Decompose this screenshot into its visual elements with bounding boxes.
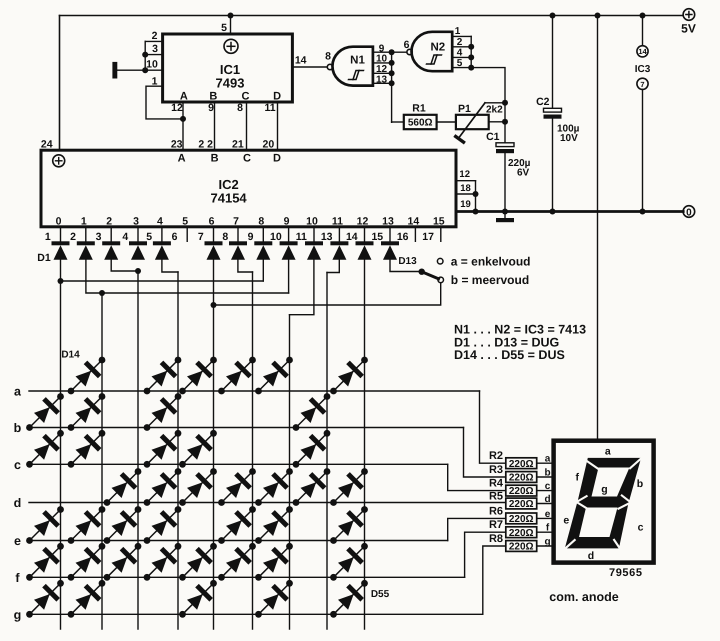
switch lever	[422, 272, 439, 279]
svg-text:b: b	[637, 478, 643, 490]
svg-text:2: 2	[70, 231, 76, 243]
diode D43 (row f, column 1)	[26, 543, 64, 581]
IC2 output 0 label	[56, 216, 62, 228]
IC2 pin number 16 label	[397, 231, 409, 243]
wire D9 anode down	[288, 260, 290, 293]
IC2 output 0 stub (pin 1)	[60, 227, 62, 242]
display digit top ring (segments a,f,b,g)	[577, 458, 641, 504]
node N1 pin 10	[389, 60, 395, 66]
svg-text:B: B	[209, 90, 217, 102]
diode D4 (output 3)	[129, 241, 147, 259]
IC2 pin 12 stub	[456, 169, 476, 181]
terminal 0V	[683, 206, 695, 219]
IC2 plus symbol	[53, 155, 65, 167]
diode D6 (output 6)	[205, 241, 223, 259]
wire node to C1	[504, 103, 506, 143]
svg-text:d: d	[544, 494, 550, 505]
node switch pole	[419, 269, 425, 275]
svg-text:10: 10	[306, 216, 318, 228]
diode D52 (row g, column 2)	[68, 580, 106, 618]
wire row c riser to R4	[448, 464, 506, 490]
wire segment row b	[29, 427, 464, 429]
IC2 output 3 label	[133, 216, 139, 228]
wire R4 to display segment c	[537, 490, 554, 492]
diode D35 (row d, column 9)	[330, 468, 368, 506]
N1 output bubble pin 8	[327, 64, 332, 69]
node D6 column junction	[211, 302, 217, 308]
svg-text:2: 2	[106, 216, 112, 228]
svg-text:4: 4	[122, 231, 128, 243]
svg-text:7: 7	[233, 216, 239, 228]
IC2 pin number 1 label	[45, 231, 51, 243]
resistor R6 220R	[506, 513, 537, 525]
svg-text:g: g	[544, 537, 550, 548]
N2 input pin 2 stub	[452, 46, 471, 48]
wire segment row g	[29, 613, 483, 615]
N1 pin 12 label	[376, 64, 388, 75]
diode D32 (row d, column 6)	[218, 468, 256, 506]
diode D23 (row b, column 8)	[293, 393, 331, 431]
wire matrix column 3	[137, 271, 139, 629]
IC2 pin number 6 label	[172, 231, 178, 243]
IC2 output 7 stub (pin 8)	[237, 227, 239, 242]
svg-text:15: 15	[371, 231, 383, 243]
N2 input pin 5 stub	[452, 67, 471, 69]
IC2 top pin number labels	[171, 139, 275, 151]
wire IC3 supply upper	[642, 16, 644, 46]
diode D11 (output 11)	[330, 241, 348, 259]
wire R5 to display segment d	[537, 503, 554, 505]
IC2 pin 19 label	[460, 199, 471, 210]
switch contact a	[437, 258, 443, 264]
diode D8 (output 8)	[254, 241, 272, 259]
svg-text:D1: D1	[37, 252, 51, 264]
svg-text:17: 17	[422, 231, 434, 243]
row label c	[14, 458, 21, 472]
IC2 pin number 11 label	[296, 231, 307, 243]
wire R7 to display segment f	[537, 531, 554, 533]
svg-text:3: 3	[96, 231, 102, 243]
wire matrix column 8	[326, 273, 328, 630]
svg-text:d: d	[588, 550, 594, 562]
svg-text:18: 18	[460, 183, 471, 194]
wire +5V top rail	[60, 15, 684, 17]
R7 label	[489, 519, 503, 531]
svg-text:D14 . . . D55 = DUS: D14 . . . D55 = DUS	[454, 348, 565, 362]
svg-text:1: 1	[81, 216, 87, 228]
diode D28 (row c, column 8)	[293, 430, 331, 468]
C1 label	[486, 131, 500, 143]
diode D33 (row d, column 7)	[255, 468, 293, 506]
IC2 output 12 label	[357, 216, 369, 228]
op-amp N1 (Schmitt NAND, mirrored)	[332, 47, 372, 86]
svg-text:1: 1	[455, 26, 461, 37]
segment letter e	[545, 509, 551, 520]
svg-text:2: 2	[152, 30, 158, 42]
IC1 pin 3 stub	[145, 54, 162, 56]
svg-text:15: 15	[433, 216, 445, 228]
IC3 label	[635, 64, 651, 75]
wire IC3 ground to 0V rail	[642, 89, 644, 211]
row label a	[14, 385, 22, 399]
C2 value	[557, 124, 580, 145]
IC2 output 13 label	[382, 216, 394, 228]
node N2 pin 5	[468, 65, 474, 71]
IC2 pin number 13 label	[321, 231, 333, 243]
svg-text:a: a	[605, 446, 611, 458]
svg-text:11: 11	[296, 231, 307, 243]
IC2 output 9 stub (pin 10)	[288, 227, 290, 242]
svg-text:12: 12	[171, 102, 183, 114]
row label d	[14, 496, 22, 510]
note D1-D13	[454, 336, 559, 350]
wire N1 pin9 to N2 output	[392, 51, 407, 53]
svg-text:D55: D55	[371, 589, 390, 600]
svg-text:R5: R5	[489, 491, 503, 503]
diode D40 (row e, column 6)	[218, 506, 256, 544]
svg-text:R6: R6	[489, 505, 503, 517]
P1 label	[458, 103, 471, 115]
com. anode label	[549, 590, 619, 604]
N2 input pin 1 stub	[452, 35, 471, 37]
IC2 output 10 stub (pin 11)	[313, 227, 315, 242]
ground symbol	[496, 212, 514, 223]
wire D10 jog	[290, 260, 314, 315]
wire D7 jog	[238, 260, 253, 272]
svg-text:12: 12	[459, 169, 470, 180]
potentiometer P1 box	[456, 115, 489, 129]
svg-text:d: d	[14, 496, 22, 510]
wire row b riser to R3	[464, 428, 506, 478]
node pin19 junction on 0V rail	[473, 209, 479, 215]
svg-text:6V: 6V	[517, 168, 530, 179]
node D2 column junction	[99, 290, 105, 296]
node D3-D4 junction	[135, 268, 141, 274]
svg-text:c: c	[14, 458, 21, 472]
IC2 output 10 label	[306, 216, 318, 228]
svg-text:19: 19	[460, 199, 471, 210]
N1 pin 13 label	[376, 74, 388, 85]
svg-text:7: 7	[198, 231, 204, 243]
IC1 pin 5 label	[221, 22, 227, 34]
resistor R8 220R	[506, 541, 537, 553]
svg-text:13: 13	[382, 216, 394, 228]
IC2 output 15 stub (pin 17)	[440, 227, 442, 242]
diode D16 (row a, column 5)	[179, 357, 217, 395]
IC2 output 4 label	[157, 216, 163, 228]
svg-text:c: c	[545, 481, 551, 492]
svg-text:8: 8	[237, 102, 243, 114]
svg-text:g: g	[14, 608, 22, 622]
wire matrix column 1	[60, 281, 62, 629]
svg-text:5: 5	[457, 58, 463, 69]
wire D1 anode down	[60, 260, 62, 281]
N1 pin 9 label	[379, 43, 385, 54]
switch label a	[451, 254, 531, 268]
svg-text:6: 6	[404, 39, 410, 51]
wire segment row f	[29, 576, 465, 578]
svg-text:IC3: IC3	[635, 64, 651, 75]
IC2 output 7 label	[233, 216, 239, 228]
svg-text:20: 20	[263, 139, 275, 151]
note D14-D55	[454, 348, 565, 362]
IC1 pin 10 label	[146, 58, 158, 70]
svg-text:0: 0	[56, 216, 62, 228]
IC1 pin 5 wire	[230, 16, 232, 35]
IC2 input letters	[178, 153, 281, 165]
R4 label	[489, 478, 504, 490]
segment letter b	[544, 468, 550, 479]
resistor R4 220R	[506, 485, 537, 497]
R8 label	[489, 533, 503, 545]
wire matrix column 2	[101, 293, 103, 629]
IC2 pin number 14 label	[346, 231, 358, 243]
svg-text:R8: R8	[489, 533, 503, 545]
N1 input pin 13 stub	[373, 82, 392, 84]
svg-text:220Ω: 220Ω	[509, 486, 534, 497]
IC2 output 8 stub (pin 9)	[262, 227, 264, 242]
wire R8 to display segment g	[537, 545, 554, 547]
diode D10 (output 10)	[305, 241, 323, 259]
resistor R1 560R	[404, 115, 437, 129]
diode D42 (row e, column 9)	[330, 506, 368, 544]
svg-text:11: 11	[264, 102, 275, 114]
wire matrix column 7	[289, 315, 291, 629]
terminal +5V	[681, 9, 696, 36]
svg-text:8: 8	[222, 231, 228, 243]
IC1 pin 1 label	[152, 76, 158, 88]
diode D9 (output 9)	[280, 241, 298, 259]
svg-text:a: a	[14, 385, 22, 399]
node IC1 pin5 on +5V rail	[228, 13, 234, 19]
node N2 pin 2	[468, 44, 474, 50]
svg-text:14: 14	[346, 231, 358, 243]
IC3 pin 14 circle	[637, 46, 648, 57]
IC2 pin number 10 label	[270, 231, 282, 243]
note N1-N2 IC3	[454, 323, 586, 337]
node IC3 supply on +5V rail	[640, 13, 646, 19]
svg-text:14: 14	[408, 216, 420, 228]
svg-text:f: f	[575, 472, 579, 484]
diode D27 (row c, column 5)	[179, 430, 217, 468]
R5 label	[489, 491, 503, 503]
svg-text:R2: R2	[489, 450, 503, 462]
node N1 pin 13	[389, 80, 395, 86]
wire C2 from +5V rail	[552, 16, 554, 109]
node C1 on 0V rail	[502, 209, 508, 215]
N2 pin 4 label	[457, 48, 463, 59]
node P1 right junction	[502, 119, 508, 125]
wire R6 to display segment e	[537, 517, 554, 519]
IC1 plus symbol	[224, 39, 238, 53]
svg-text:N2: N2	[430, 42, 445, 54]
N1 input pin 10 stub	[373, 62, 392, 64]
wire joining N1 inputs	[391, 52, 393, 122]
diode D14 (row a, column 2)	[68, 357, 106, 395]
wire segment row c	[29, 463, 448, 465]
IC2 pin number 17 label	[422, 231, 434, 243]
switch label b	[451, 273, 529, 287]
svg-text:6: 6	[172, 231, 178, 243]
IC2 output 11 label	[332, 216, 343, 228]
svg-text:C2: C2	[536, 96, 550, 108]
N1 pin 8 label	[325, 51, 331, 63]
N2 output bubble pin 6	[407, 49, 412, 54]
svg-text:13: 13	[376, 74, 388, 85]
svg-text:D: D	[273, 90, 281, 102]
IC1 pin 1 feedback wire to QA	[146, 86, 183, 119]
diode D38 (row e, column 3)	[104, 506, 142, 544]
N2 pin 2 label	[457, 37, 463, 48]
IC2 pin number 8 label	[222, 231, 228, 243]
svg-text:C: C	[242, 90, 250, 102]
diode D36 (row e, column 1)	[26, 506, 64, 544]
svg-text:10: 10	[146, 58, 158, 70]
wire row g riser to R8	[483, 546, 506, 614]
node QA feedback junction	[180, 116, 186, 122]
wire segment row a	[29, 390, 480, 392]
diode D41 (row e, column 7)	[255, 506, 293, 544]
IC2 output 3 stub (pin 4)	[137, 227, 139, 242]
diode D46 (row f, column 4)	[144, 543, 182, 581]
diode D7 (output 7)	[229, 241, 247, 259]
IC2 output 1 stub (pin 2)	[85, 227, 87, 242]
svg-text:21: 21	[232, 139, 244, 151]
N2 pin 5 label	[457, 58, 463, 69]
svg-text:3: 3	[152, 43, 158, 55]
wire N1 inputs to R1	[392, 121, 404, 123]
diode D37 (row e, column 2)	[68, 506, 106, 544]
svg-text:A: A	[180, 90, 188, 102]
svg-text:14: 14	[295, 55, 307, 67]
P1 wiper arrow	[456, 103, 505, 142]
wire matrix column 9	[364, 260, 366, 629]
wire R3 to display segment b	[537, 476, 554, 478]
svg-text:N1: N1	[350, 55, 365, 67]
IC2 output 5 stub (pin 6)	[186, 227, 188, 242]
node IC1 pin10 junction	[142, 67, 148, 73]
IC2 label	[211, 177, 248, 206]
N2 pin 1 label	[455, 26, 461, 37]
svg-text:e: e	[14, 534, 21, 548]
resistor R2 220R	[506, 458, 537, 470]
IC2 output 2 label	[106, 216, 112, 228]
IC2 pin number 3 label	[96, 231, 102, 243]
wire C2 to 0V rail	[552, 119, 554, 212]
svg-text:R4: R4	[489, 478, 504, 490]
IC2 output 2 stub (pin 3)	[110, 227, 112, 242]
wire joining IC1 pins 2-3-10	[144, 41, 146, 70]
IC2 pin number 7 label	[198, 231, 204, 243]
svg-text:2 2: 2 2	[198, 139, 213, 151]
node pin18 junction	[473, 191, 479, 197]
diode D15 (row a, column 4)	[144, 357, 182, 395]
IC2 output 14 label	[408, 216, 420, 228]
wire D11 jog	[327, 260, 339, 273]
wire matrix column 5	[213, 260, 215, 629]
diode D13 (output 13)	[381, 241, 399, 259]
C2 label	[536, 96, 550, 108]
segment letter a	[545, 454, 551, 465]
IC2 output 15 label	[433, 216, 445, 228]
svg-text:b: b	[544, 468, 550, 479]
IC1 pin 2 stub	[145, 40, 162, 42]
diode D5 (output 4)	[153, 241, 171, 259]
svg-text:R1: R1	[412, 103, 426, 115]
node D1 column junction	[58, 278, 64, 284]
resistor R3 220R	[506, 472, 537, 484]
R3 label	[489, 464, 503, 476]
diode D20 (row b, column 1)	[26, 393, 64, 431]
display inner segment letters	[563, 446, 643, 563]
svg-text:560Ω: 560Ω	[408, 118, 433, 129]
svg-text:1: 1	[45, 231, 51, 243]
display digit bottom ring (segments e,c,d,g)	[565, 502, 629, 549]
IC2 74154 box	[41, 150, 456, 227]
wire segment row d	[29, 502, 506, 504]
capacitor C1 220u	[496, 143, 514, 153]
svg-text:e: e	[563, 515, 569, 527]
svg-text:D14: D14	[61, 350, 80, 361]
svg-text:6: 6	[209, 216, 215, 228]
D14 label	[61, 350, 80, 361]
wire counter output A to IC2	[182, 102, 184, 150]
diode D22 (row b, column 4)	[144, 393, 182, 431]
svg-text:13: 13	[321, 231, 333, 243]
svg-text:C: C	[243, 153, 251, 165]
svg-text:g: g	[601, 484, 607, 496]
svg-text:9: 9	[208, 102, 214, 114]
svg-text:7: 7	[640, 80, 644, 89]
node IC1 pin3 junction	[142, 52, 148, 58]
diode D2 (output 1)	[77, 241, 95, 259]
svg-text:2k2: 2k2	[486, 105, 503, 116]
resistor R5 220R	[506, 498, 537, 510]
diode D51 (row g, column 1)	[26, 580, 64, 618]
N2 input pin 4 stub	[452, 56, 471, 58]
node N2 pin 4	[468, 54, 474, 60]
svg-text:D13: D13	[398, 256, 417, 267]
wire row e riser to R6	[448, 518, 506, 540]
diode D54 (row g, column 7)	[255, 580, 293, 618]
IC2 output 13 stub (pin 15)	[389, 227, 391, 242]
row label f	[15, 571, 20, 585]
svg-text:a: a	[545, 454, 551, 465]
P1 value label 2k2	[486, 105, 503, 116]
svg-text:3: 3	[133, 216, 139, 228]
R6 label	[489, 505, 503, 517]
IC1 pin 14 label	[295, 55, 307, 67]
svg-text:5: 5	[182, 216, 188, 228]
svg-text:14: 14	[638, 47, 647, 56]
display 79565 box	[554, 441, 654, 563]
IC2 pin number 15 label	[371, 231, 383, 243]
wire left vertical from +5V rail to IC2 pin 24	[59, 16, 61, 151]
IC2 output 5 label	[182, 216, 188, 228]
segment letter c	[545, 481, 551, 492]
wire 0V rail	[456, 210, 683, 213]
wire N2 pin5 to P1/C1 node	[471, 68, 505, 103]
svg-text:D: D	[273, 153, 281, 165]
N1 input pin 12 stub	[373, 72, 392, 74]
R1 label	[412, 103, 426, 115]
D13 label	[398, 256, 417, 267]
wire P1 right terminal	[489, 121, 505, 123]
svg-text:220Ω: 220Ω	[509, 499, 534, 510]
IC1 7493 box	[163, 34, 293, 102]
svg-text:c: c	[638, 522, 644, 534]
IC2 output 1 label	[81, 216, 87, 228]
